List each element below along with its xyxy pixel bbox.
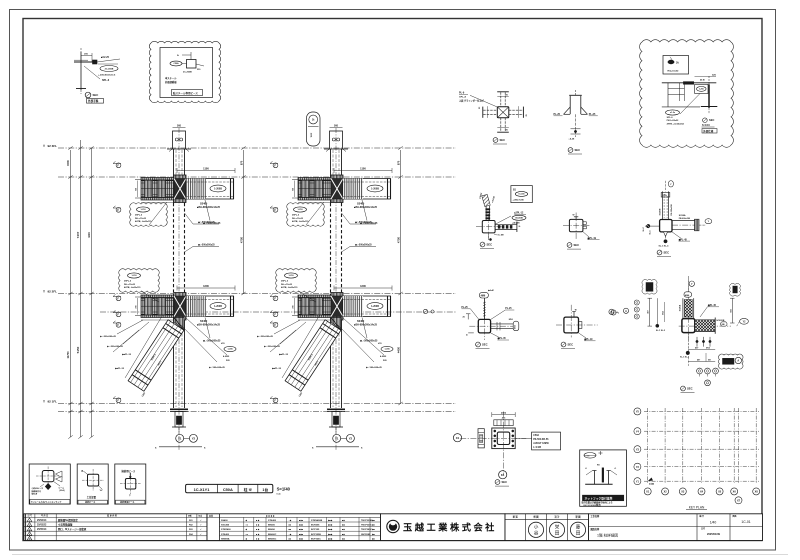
svg-text:■C2-25: ■C2-25 (101, 56, 110, 59)
beam B11 girder (186, 179, 234, 200)
detail G1 right arm (491, 323, 517, 325)
svg-text:1-210: 1-210 (297, 209, 303, 211)
cloud box TC (149, 41, 220, 102)
svg-text:SS400: SS400 (200, 320, 208, 323)
detail G1 left dim (467, 314, 469, 320)
svg-text:1-206: 1-206 (227, 349, 233, 351)
weld marks beam B22 (292, 296, 298, 298)
svg-text:◉PL-45: ◉PL-45 (497, 337, 506, 340)
left dimension line c (91, 148, 93, 437)
column C2 centreline (335, 128, 337, 450)
beam B21 leader (362, 200, 367, 221)
revision row 1 (27, 518, 32, 522)
svg-text:SS400: SS400 (357, 320, 365, 323)
left dimension line b (80, 140, 82, 437)
svg-text:SL-C SL-5: SL-C SL-5 (680, 356, 689, 358)
cloud callout lower bay 2 (276, 269, 317, 293)
detail D top bolt stack (485, 206, 487, 221)
brace KB2 dim line (282, 315, 320, 378)
svg-text:◆□ 500x500x25: ◆□ 500x500x25 (208, 366, 226, 369)
beam B22 leader (362, 318, 367, 339)
revision row line y=517.4 (24, 516, 207, 518)
svg-text:A.BOLT 8-M56: A.BOLT 8-M56 (533, 442, 549, 445)
beam B21 column joint (331, 175, 343, 203)
material row line y=522.0 (220, 521, 381, 523)
cloud C oval + texts (666, 110, 680, 115)
note box I oval symbol (584, 453, 596, 459)
detail E leader (583, 232, 589, 237)
detail G3 left dims (649, 298, 651, 326)
svg-text:S=1/16: S=1/16 (702, 124, 710, 127)
revision row line y=531.2 (24, 530, 207, 532)
detail TL sec mark (85, 92, 91, 98)
revision row 3 (27, 527, 32, 531)
column leader mid bay 1 (185, 247, 194, 253)
detail H X1 bubble (453, 434, 461, 442)
splice leader lines bay 2 (274, 320, 300, 334)
detail D angled piece (482, 195, 490, 207)
detail G1 top bolt (483, 298, 485, 319)
svg-text:25/05/14: 25/05/14 (37, 528, 47, 531)
svg-text:BCP325C: BCP325C (311, 538, 321, 540)
svg-text:◆□-500x500x25: ◆□-500x500x25 (197, 244, 215, 247)
svg-text:C50A: C50A (533, 434, 539, 437)
detail TL diagonal leader (84, 66, 100, 79)
cloud C legend box (663, 56, 689, 75)
column C1 lower segment (173, 294, 175, 408)
beam B21 label oval (367, 185, 383, 192)
svg-text:2t: 2t (676, 61, 679, 65)
svg-text:KEY PLAN: KEY PLAN (689, 506, 705, 510)
detail D label box (511, 186, 532, 203)
svg-text:AB+: AB+ (662, 194, 667, 197)
material row line y=526.6 (220, 526, 381, 528)
detail E square (569, 219, 583, 231)
weld marks beam B12 (135, 296, 141, 298)
note box I title bar (583, 495, 624, 501)
cloud C black label (702, 129, 717, 133)
detail H K1 bubble (499, 471, 507, 479)
svg-text:FB-600x298: FB-600x298 (679, 218, 691, 220)
gridline 1FL y=403.5 (58, 403, 456, 405)
weld marks beam B21 (292, 179, 298, 181)
svg-text:●1-2●: ●1-2● (670, 112, 676, 114)
svg-text:45 45: 45 45 (700, 79, 705, 82)
detail H left flange (478, 429, 484, 448)
detail G1 leader (491, 333, 499, 337)
detail TL beam section (80, 52, 82, 90)
axis line below bay 1 (159, 446, 202, 448)
detail G3 right dim (731, 298, 733, 323)
brace KB2 (285, 320, 341, 391)
svg-text:1-200B: 1-200B (371, 305, 379, 308)
svg-text:1100: 1100 (360, 166, 366, 170)
key plan grid (647, 408, 649, 484)
beam B22 girder (343, 296, 391, 317)
svg-text:4-M22: 4-M22 (223, 355, 230, 358)
gridline y=312 (100, 311, 456, 313)
svg-text:1C-X1Y1: 1C-X1Y1 (194, 487, 211, 492)
svg-text:SEC: SEC (709, 118, 714, 122)
note box I flare marks (586, 471, 593, 476)
svg-text:柱 ※: 柱 ※ (244, 487, 253, 492)
cloud C label (695, 84, 708, 93)
svg-text:4750: 4750 (397, 236, 401, 243)
svg-text:Rib +15x22: Rib +15x22 (135, 218, 147, 220)
svg-text:◆ ◆ ◆ ◆: ◆ ◆ ◆ ◆ (265, 515, 275, 518)
axis line below bay 2 (316, 446, 359, 448)
dim tick (68, 410, 72, 413)
svg-text:✓: ✓ (200, 533, 202, 536)
legend box 1 (29, 464, 70, 504)
svg-text:◆■◆: ◆■◆ (327, 524, 333, 527)
detail A dims (497, 96, 509, 98)
detail D right arm (495, 223, 516, 225)
svg-text:■BH-800x300x14x25: ■BH-800x300x14x25 (354, 324, 378, 327)
stamp divider x=525.5 (525, 514, 527, 541)
beam B11 label oval (210, 185, 226, 192)
svg-text:◆□-500x500x25: ◆□-500x500x25 (197, 221, 215, 224)
column C1 base plate (170, 408, 188, 410)
revision col line x=34.9 (34, 514, 36, 541)
svg-text:92 1FL: 92 1FL (48, 400, 58, 404)
beam B11 end stiffener (230, 179, 232, 200)
svg-text:■◆: ■◆ (342, 537, 345, 540)
gridline y=411.5 (58, 411, 456, 413)
svg-text:2HTB, +6x65x254: 2HTB, +6x65x254 (667, 123, 685, 126)
svg-text:BK400C: BK400C (268, 533, 277, 536)
revision row line y=522.0 (24, 521, 207, 523)
svg-text:◆□ 500x500x25: ◆□ 500x500x25 (365, 366, 383, 369)
detail TL black label (87, 99, 104, 104)
brace KB1 gusset (174, 318, 184, 331)
beam B11 column joint (174, 175, 186, 203)
company logo (387, 520, 399, 532)
svg-text:SL-C: SL-C (643, 226, 645, 231)
svg-text:4HTB, -6x65x115: 4HTB, -6x65x115 (124, 286, 141, 289)
svg-text:4HTB, -6x65x115: 4HTB, -6x65x115 (135, 220, 152, 223)
material table header row (207, 516, 381, 518)
detail E tabs (583, 222, 586, 225)
detail G3 cloud bubble (718, 354, 743, 369)
svg-text:◆4●M: ◆4●M (487, 289, 494, 292)
svg-text:JBCR385: JBCR385 (361, 534, 371, 536)
legend box 2 (77, 464, 108, 504)
brace annotation leaders bay 1 (186, 318, 227, 355)
svg-text:5: 5 (29, 539, 30, 541)
svg-text:■BH-800x300x14x25: ■BH-800x300x14x25 (354, 206, 378, 209)
company block frame (381, 514, 506, 541)
material col line x=326.3 (325, 517, 327, 540)
detail G1 square (478, 319, 490, 333)
revision row 2 (27, 523, 32, 527)
svg-text:✓: ✓ (200, 524, 202, 527)
svg-text:■ ◆: ■ ◆ (256, 537, 260, 540)
note box I frame (580, 450, 627, 506)
detail D column square (482, 221, 495, 233)
svg-text:SSC400: SSC400 (221, 524, 230, 527)
brace annotation leaders bay 2 (343, 318, 384, 355)
detail D sec (480, 242, 485, 247)
svg-text:1500: 1500 (66, 160, 70, 166)
svg-text:Rib +15x22: Rib +15x22 (281, 284, 293, 286)
detail G2 leader (579, 333, 587, 338)
svg-text:25/02/14: 25/02/14 (37, 519, 47, 522)
svg-text:STKN490B: STKN490B (311, 519, 323, 522)
detail H outer plate (492, 428, 515, 449)
svg-text:1-210: 1-210 (131, 275, 137, 277)
brace KB1 dim line (125, 315, 163, 378)
svg-text:◆□-500x500x25: ◆□-500x500x25 (256, 335, 274, 338)
cloud box TC label bar (172, 90, 203, 96)
cloud C dim 425 (695, 76, 717, 78)
svg-text:1B-250B: 1B-250B (515, 218, 523, 220)
svg-text:◉PL-45: ◉PL-45 (708, 304, 717, 307)
svg-text:2t: 2t (177, 54, 179, 57)
svg-text:BCP325: BCP325 (311, 529, 320, 531)
beam B11 leader (205, 200, 210, 221)
svg-text:○◆: ○◆ (289, 533, 292, 536)
brace KB1 (128, 320, 184, 391)
svg-text:2SPL-6: 2SPL-6 (124, 281, 132, 283)
detail B sec (568, 148, 573, 153)
weld marks beam B11 (135, 179, 141, 181)
svg-text:1200: 1200 (203, 284, 209, 288)
beam B21 girder (343, 179, 391, 200)
column C1 centreline (178, 128, 180, 450)
revision table frame (24, 514, 207, 541)
svg-text:2C-250B: 2C-250B (105, 68, 114, 70)
detail G3 weld circles (634, 300, 639, 305)
detail B anchor (575, 114, 577, 137)
detail G2 sec (561, 342, 566, 347)
material row line y=535.8 (220, 535, 381, 537)
svg-text:SS400: SS400 (200, 203, 208, 206)
material col line x=286.3 (285, 517, 287, 540)
key plan position marker (648, 478, 653, 482)
svg-text:t1: t1 (615, 467, 617, 470)
svg-text:PK2+t15x22: PK2+t15x22 (667, 119, 680, 122)
svg-text:■ ◆: ■ ◆ (256, 524, 260, 527)
svg-text:BCP325B: BCP325B (311, 534, 321, 536)
svg-text:SPL-6: SPL-6 (102, 79, 110, 82)
svg-text:STKR400: STKR400 (221, 528, 231, 531)
svg-text:K1: K1 (501, 473, 505, 477)
detail F right hatch end (695, 219, 700, 231)
detail E sec (567, 243, 572, 248)
detail A arm left (483, 109, 497, 111)
revision col line x=56.2 (55, 514, 57, 541)
stamp circle 2 (549, 522, 564, 537)
svg-text:7407: 7407 (76, 231, 80, 238)
svg-text:2SPL-6: 2SPL-6 (292, 215, 300, 217)
detail G3 cloud pill top-left (642, 279, 657, 294)
revision row 5 (27, 536, 32, 540)
svg-text:1-210: 1-210 (288, 275, 294, 277)
dim tick (68, 402, 72, 405)
legend box 1 title bar (30, 500, 70, 505)
svg-text:✓: ✓ (200, 528, 202, 531)
svg-text:+4h298: +4h298 (512, 222, 520, 225)
column leader mid bay 2 (342, 247, 351, 253)
svg-text:C50A: C50A (173, 62, 179, 65)
svg-text:970: 970 (397, 160, 401, 165)
svg-text:A: A (625, 310, 627, 313)
svg-text:STK400: STK400 (221, 533, 230, 536)
svg-text:1階 柱詳細図: 1階 柱詳細図 (597, 533, 618, 538)
svg-text:ネットフック取付基準: ネットフック取付基準 (585, 497, 613, 501)
svg-text:SEC: SEC (687, 387, 693, 391)
beam B21 end stiffener (387, 179, 389, 200)
svg-text:500: 500 (177, 124, 182, 127)
gridline 2FL y=293.5 (58, 293, 456, 295)
legend box 3 (115, 464, 146, 504)
svg-text:1-206: 1-206 (699, 89, 704, 91)
svg-text:SL-C SL-5: SL-C SL-5 (656, 330, 665, 332)
detail A arm top (500, 92, 502, 107)
svg-text:497: 497 (697, 358, 700, 361)
beam B11 top dim (177, 170, 235, 172)
detail G2 right tab (579, 322, 582, 329)
svg-text:◆■PL-32: ◆■PL-32 (121, 353, 132, 356)
svg-text:2SPL-6: 2SPL-6 (281, 281, 289, 283)
detail G3 A circles left (611, 310, 616, 315)
detail G3 bottom dots (686, 351, 690, 355)
svg-text:W12: W12 (311, 132, 313, 137)
svg-text:1-200B: 1-200B (214, 187, 222, 190)
svg-text:1C-500: 1C-500 (518, 194, 524, 196)
pill callout (307, 112, 321, 146)
dim tick (68, 292, 72, 295)
svg-text:2025/01/09: 2025/01/09 (707, 532, 721, 536)
svg-text:開口、Mステージ一部変更: 開口、Mステージ一部変更 (58, 527, 87, 531)
cloud callout lower bay 1 (119, 269, 160, 293)
svg-text:SL-C SL-5: SL-C SL-5 (659, 246, 670, 248)
svg-text:A: A (737, 360, 739, 363)
svg-text:1-210: 1-210 (140, 209, 146, 211)
detail TL labels (97, 59, 120, 62)
revision row line y=535.8 (24, 535, 207, 537)
svg-text:1/40: 1/40 (710, 521, 717, 525)
splice leader lines bay 1 (117, 320, 143, 334)
svg-text:SEC: SEC (482, 343, 488, 347)
cloud box TC inner rect (160, 48, 213, 98)
detail G3 top circle (687, 281, 689, 292)
svg-text:Rib +15x22: Rib +15x22 (292, 218, 304, 220)
note box I U channel (585, 483, 612, 485)
svg-text:◆■◆: ◆■◆ (327, 533, 333, 536)
detail E top mark (574, 216, 578, 218)
column C2 lower segment (330, 294, 332, 408)
svg-text:970: 970 (240, 160, 244, 165)
detail H sec (495, 480, 500, 485)
column C1 top stub (173, 131, 186, 149)
svg-text:1-206: 1-206 (384, 349, 390, 351)
svg-text:SEC: SEC (93, 93, 99, 97)
beam B12 top dim (177, 287, 235, 289)
column C2 base plate (327, 408, 345, 410)
svg-text:BK400: BK400 (268, 524, 276, 527)
svg-text:SPL-6: SPL-6 (667, 117, 674, 119)
svg-text:貼スチール専用ピース: 貼スチール専用ピース (173, 91, 198, 95)
svg-text:11750: 11750 (66, 351, 70, 359)
svg-text:■◆: ■◆ (342, 524, 345, 527)
detail G1 top pill (479, 292, 488, 298)
svg-text:1-200B: 1-200B (214, 305, 222, 308)
svg-text:SEC: SEC (568, 343, 574, 347)
svg-text:■◆: ■◆ (342, 519, 345, 522)
svg-text:+-M6x7x89: +-M6x7x89 (513, 200, 525, 202)
svg-text:◆■PL-32: ◆■PL-32 (114, 367, 125, 370)
svg-text:M12: M12 (663, 311, 665, 315)
svg-text:92 3FL: 92 3FL (48, 144, 58, 148)
material col line x=266 (265, 517, 267, 540)
revision row line y=526.6 (24, 526, 207, 528)
svg-text:4750: 4750 (240, 236, 244, 243)
svg-text:■ ◆: ■ ◆ (256, 533, 260, 536)
detail G2 square (564, 317, 579, 333)
svg-text:1100: 1100 (203, 166, 209, 170)
svg-text:(M×8): (M×8) (60, 489, 65, 492)
detail F leader (672, 232, 681, 238)
svg-text:Rib+15x52: Rib+15x52 (668, 71, 680, 73)
svg-text:A: A (613, 312, 615, 315)
svg-text:W: W (573, 215, 575, 217)
svg-text:谷: 谷 (534, 529, 539, 536)
anchor bolts C1 (176, 416, 181, 425)
grid bubbles X1 (178, 427, 180, 434)
svg-text:◉PL-19: ◉PL-19 (587, 237, 596, 240)
right dim line bay2 x=400.5 (400, 150, 402, 404)
detail F left anchor (645, 225, 660, 227)
stamp circle 3 (570, 522, 585, 537)
dim tick (68, 146, 72, 149)
svg-text:■ ◆: ■ ◆ (256, 519, 260, 522)
svg-text:BK490: BK490 (268, 528, 276, 531)
detail G1 sec (476, 342, 481, 347)
svg-text:4HTB, -6x65x115: 4HTB, -6x65x115 (292, 220, 309, 223)
material table frame (207, 514, 381, 541)
beam B22 end stiffener (387, 296, 389, 317)
svg-text:◆■◆: ◆■◆ (327, 537, 333, 540)
svg-text:SC80B: SC80B (659, 208, 661, 215)
legend box 2 title bar (78, 500, 107, 504)
beam B12 end stiffener (230, 296, 232, 317)
svg-text:PL-25: PL-25 (589, 113, 596, 116)
svg-text:(500): (500) (501, 413, 506, 415)
column C1 upper segment (173, 149, 175, 203)
svg-text:■◆: ■◆ (342, 533, 345, 536)
cloud callout upper bay 1 (130, 203, 168, 227)
svg-text:SEC: SEC (575, 148, 581, 152)
material col line x=253.8 (253, 517, 255, 540)
material col line x=359 (358, 517, 360, 540)
column C2 middle segment (hidden) (330, 203, 332, 294)
svg-text:寸法等微調整: 寸法等微調整 (58, 523, 73, 527)
title block frame (589, 514, 763, 541)
detail H label box (532, 432, 561, 450)
sheet shadow line (12, 554, 788, 556)
dim tick (68, 435, 72, 438)
svg-text:玉 越 工 業 株 式 会 社: 玉 越 工 業 株 式 会 社 (403, 521, 495, 532)
svg-text:Rib +15x22: Rib +15x22 (124, 284, 136, 286)
svg-text:SL-5: SL-5 (650, 230, 652, 234)
detail F bottom (664, 232, 668, 237)
svg-text:2SPL-6: 2SPL-6 (135, 215, 143, 217)
svg-text:2t: 2t (312, 118, 314, 122)
beam B22 splice block (298, 295, 331, 318)
svg-text:◆■PL-32: ◆■PL-32 (271, 367, 282, 370)
